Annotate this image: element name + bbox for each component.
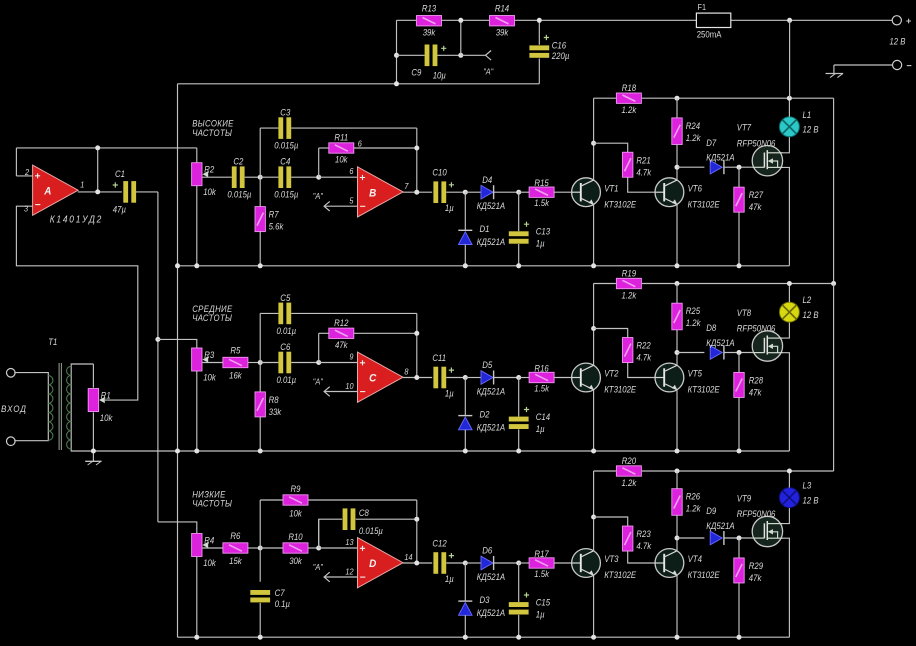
wire [494, 191, 519, 193]
svg-text:8: 8 [404, 367, 409, 377]
capacitor C13 [509, 222, 551, 249]
svg-text:0.1µ: 0.1µ [275, 598, 290, 609]
transformer T1 [14, 337, 93, 451]
node [537, 18, 542, 23]
node [675, 536, 680, 541]
potentiometer R4 [192, 534, 217, 568]
svg-text:47k: 47k [335, 339, 348, 350]
svg-text:VT5: VT5 [688, 368, 703, 379]
svg-text:10k: 10k [203, 557, 216, 568]
wire emitter to rail [593, 390, 595, 451]
svg-text:250mA: 250mA [697, 29, 722, 40]
svg-text:R29: R29 [749, 560, 764, 571]
node [414, 517, 419, 522]
resistor R22 [623, 338, 652, 363]
wire supply rail right [642, 283, 834, 285]
svg-text:R28: R28 [749, 375, 764, 386]
wire R1 bottom [92, 412, 94, 451]
wire R2 top lead [196, 148, 198, 163]
capacitor C8 [343, 508, 356, 530]
wire [259, 313, 261, 362]
wire [724, 166, 752, 168]
svg-text:10k: 10k [335, 154, 348, 165]
svg-text:R26: R26 [686, 491, 701, 502]
wire supply rail [594, 97, 616, 99]
svg-text:D7: D7 [706, 137, 717, 148]
svg-text:F1: F1 [698, 3, 707, 13]
svg-text:C5: C5 [280, 292, 290, 303]
wire [259, 548, 261, 582]
resistor R7 [255, 207, 284, 232]
capacitor C2 [232, 166, 245, 188]
wire [676, 471, 678, 489]
svg-text:14: 14 [404, 552, 413, 562]
capacitor C5 [278, 303, 291, 325]
node detector 2 [516, 190, 521, 195]
svg-text:0.015µ: 0.015µ [274, 189, 298, 200]
wire [833, 65, 835, 74]
diode D3 [458, 594, 505, 618]
terminal input top [7, 369, 16, 378]
svg-text:C: C [369, 373, 377, 385]
wire [464, 378, 466, 416]
wire [738, 353, 740, 373]
wire [676, 98, 678, 118]
node J2 [316, 546, 321, 551]
node [737, 350, 742, 355]
svg-text:КТ3102Е: КТ3102Е [688, 384, 720, 395]
wire drain [783, 322, 790, 338]
svg-text:КТ3102Е: КТ3102Е [604, 199, 636, 210]
svg-text:C13: C13 [536, 226, 551, 237]
svg-text:КД521А: КД521А [706, 152, 735, 163]
svg-text:КД521А: КД521А [477, 422, 506, 433]
wire drain [783, 508, 790, 524]
wire to + input [319, 362, 358, 364]
svg-text:D3: D3 [480, 594, 490, 605]
wire [291, 176, 319, 178]
node [95, 189, 100, 194]
svg-text:C12: C12 [432, 538, 447, 549]
wire 12V down [789, 20, 791, 98]
wire emitter VT6 [676, 205, 678, 266]
lamp L1 [779, 109, 818, 137]
svg-text:B: B [369, 188, 377, 200]
capacitor C1 [113, 181, 136, 203]
wire common bus [177, 84, 179, 637]
diode D6 [477, 545, 506, 582]
wire collector VT6 [676, 353, 678, 366]
wire [260, 362, 278, 364]
svg-text:15k: 15k [229, 556, 242, 567]
wire [464, 615, 466, 637]
wire [724, 537, 752, 539]
svg-text:6: 6 [349, 166, 354, 176]
capacitor C10 [433, 181, 454, 203]
wire [738, 212, 740, 266]
svg-text:R22: R22 [636, 340, 651, 351]
svg-text:220µ: 220µ [551, 50, 569, 61]
wire [446, 191, 465, 193]
capacitor C12 [433, 552, 454, 574]
node [675, 635, 680, 640]
terminal input bottom [7, 437, 16, 446]
wire [259, 500, 261, 548]
svg-text:К1401УД2: К1401УД2 [50, 214, 103, 225]
svg-text:R20: R20 [622, 455, 637, 466]
resistor R16 [529, 363, 554, 394]
wire right bus upper [833, 98, 835, 283]
wire emitter VT6 [676, 575, 678, 637]
node [737, 449, 742, 454]
resistor R11 [329, 132, 354, 165]
capacitor C15 [509, 592, 551, 619]
wire pot bottom [196, 557, 198, 638]
svg-text:RFP50N06: RFP50N06 [737, 323, 776, 334]
wire drain [783, 137, 790, 153]
svg-text:R4: R4 [204, 535, 214, 546]
svg-text:1µ: 1µ [445, 573, 454, 584]
ground [85, 451, 101, 465]
node [258, 635, 263, 640]
wire [97, 148, 99, 192]
capacitor C7 [250, 588, 290, 610]
svg-text:5.6k: 5.6k [269, 221, 284, 232]
node [516, 635, 521, 640]
svg-text:D: D [369, 559, 377, 571]
node J1 [258, 360, 263, 365]
svg-text:10k: 10k [203, 186, 216, 197]
node [394, 53, 399, 58]
node [175, 263, 180, 268]
wire secondary top to R1 [92, 364, 94, 388]
diode D2 [458, 409, 505, 433]
svg-text:D8: D8 [706, 323, 716, 334]
svg-text:D4: D4 [482, 174, 492, 185]
node [675, 469, 680, 474]
node [414, 331, 419, 336]
node [675, 165, 680, 170]
wire emitter to rail [593, 205, 595, 266]
node detector 1 [463, 375, 468, 380]
wire [738, 167, 740, 187]
wire op-amp output [403, 191, 432, 193]
wire [515, 19, 697, 21]
node [831, 281, 836, 286]
resistor R10 [283, 531, 308, 566]
wire [354, 147, 417, 149]
net marker A at inverting input [313, 377, 358, 396]
wire op-amp output [403, 562, 432, 564]
svg-text:C14: C14 [536, 411, 551, 422]
diode D4 [477, 174, 506, 211]
resistor R26 [672, 489, 701, 516]
node detector 1 [463, 190, 468, 195]
svg-text:10k: 10k [289, 508, 302, 519]
svg-text:D2: D2 [480, 409, 490, 420]
wire [291, 127, 417, 129]
node [675, 350, 680, 355]
resistor R12 [329, 317, 354, 350]
svg-text:3: 3 [24, 204, 29, 214]
node [414, 375, 419, 380]
wire [519, 562, 529, 564]
wire [260, 547, 283, 549]
wire [260, 127, 278, 129]
wire channel bottom rail [93, 450, 789, 452]
node J2 [316, 360, 321, 365]
svg-text:4.7k: 4.7k [636, 167, 651, 178]
node detector 1 [463, 561, 468, 566]
wire [518, 615, 520, 637]
wire [446, 377, 465, 379]
svg-text:12 В: 12 В [803, 124, 819, 135]
svg-text:0.01µ: 0.01µ [276, 325, 296, 336]
svg-text:10k: 10k [100, 412, 113, 423]
wire bus to R4 [158, 522, 197, 534]
wire [15, 148, 17, 176]
wire collector to rail [593, 284, 595, 366]
svg-text:13: 13 [345, 537, 354, 547]
wire supply rail [594, 283, 616, 285]
wire [519, 377, 529, 379]
svg-text:1.2k: 1.2k [622, 477, 637, 488]
wire [518, 429, 520, 451]
wire collector tap [594, 517, 628, 526]
svg-text:1µ: 1µ [445, 388, 454, 399]
svg-text:39k: 39k [423, 27, 436, 38]
svg-text:R6: R6 [230, 530, 240, 541]
svg-text:1: 1 [80, 180, 84, 190]
svg-text:КД521А: КД521А [477, 571, 506, 582]
svg-text:D9: D9 [706, 506, 716, 517]
wire [319, 332, 329, 334]
wire [676, 145, 678, 168]
wire [248, 362, 260, 364]
wire [676, 515, 678, 538]
node [463, 263, 468, 268]
node [591, 326, 596, 331]
wire source [783, 538, 790, 637]
wire collector to rail [593, 98, 595, 180]
svg-text:A: A [43, 186, 51, 198]
wire [677, 537, 704, 539]
node [194, 635, 199, 640]
wire [465, 562, 481, 564]
wire [538, 59, 540, 84]
wire [308, 499, 417, 501]
wire [738, 538, 740, 558]
svg-text:C3: C3 [280, 107, 290, 118]
svg-text:L1: L1 [803, 109, 812, 120]
wire [260, 499, 283, 501]
wire [291, 312, 417, 314]
wire [397, 54, 425, 56]
svg-text:"А": "А" [313, 377, 324, 387]
capacitor C3 [278, 117, 291, 139]
potentiometer R3 [192, 348, 217, 382]
node [675, 263, 680, 268]
svg-text:КД521А: КД521А [477, 607, 506, 618]
svg-text:C1: C1 [115, 168, 125, 179]
node [95, 145, 100, 150]
wire [260, 176, 278, 178]
svg-text:C2: C2 [233, 156, 243, 167]
wire [136, 191, 158, 193]
node [516, 449, 521, 454]
wire [834, 64, 893, 66]
svg-text:КД521А: КД521А [706, 337, 735, 348]
svg-text:C10: C10 [432, 167, 447, 178]
wire pin2 [16, 175, 32, 177]
svg-text:1.2k: 1.2k [686, 132, 701, 143]
node [675, 281, 680, 286]
svg-text:КД521А: КД521А [477, 201, 506, 212]
svg-text:30k: 30k [289, 556, 302, 567]
wire [738, 583, 740, 637]
wire [259, 177, 261, 207]
node [414, 190, 419, 195]
svg-text:1.5k: 1.5k [534, 568, 549, 579]
wire [464, 430, 466, 451]
wire [354, 332, 417, 334]
capacitor C14 [509, 407, 551, 434]
wire C1 output bus [157, 192, 159, 522]
wire R21 to base VT6 [628, 551, 655, 563]
svg-text:R23: R23 [636, 528, 651, 539]
diode D8 [706, 323, 735, 360]
resistor R17 [529, 548, 554, 579]
svg-text:RFP50N06: RFP50N06 [737, 508, 776, 519]
svg-text:КТ3102Е: КТ3102Е [688, 570, 720, 581]
svg-text:КД521А: КД521А [477, 236, 506, 247]
MOSFET VT7 [737, 122, 783, 176]
wire supply rail right [642, 470, 834, 472]
wire [465, 377, 481, 379]
capacitor C6 [278, 352, 291, 374]
wire pot bottom [196, 371, 198, 451]
resistor R13 [417, 3, 442, 38]
svg-text:ЧАСТОТЫ: ЧАСТОТЫ [192, 312, 232, 323]
net marker A at inverting input [313, 562, 358, 581]
wire [518, 192, 520, 231]
svg-text:VT7: VT7 [737, 122, 752, 133]
wire to + input [319, 176, 358, 178]
svg-text:16k: 16k [229, 370, 242, 381]
wire [676, 330, 678, 353]
resistor R20 [616, 455, 641, 488]
svg-text:L2: L2 [803, 294, 812, 305]
svg-text:1.5k: 1.5k [534, 383, 549, 394]
svg-text:9: 9 [349, 352, 354, 362]
node [675, 449, 680, 454]
svg-text:ВХОД: ВХОД [1, 403, 27, 414]
wire channel bottom rail [178, 636, 790, 638]
wire [248, 547, 260, 549]
wire output A [78, 191, 122, 193]
node [737, 263, 742, 268]
resistor R29 [734, 558, 764, 583]
node [737, 536, 742, 541]
wire R21 to base VT6 [628, 363, 655, 378]
resistor R6 [223, 530, 248, 566]
wire [260, 312, 278, 314]
node [194, 449, 199, 454]
svg-text:R3: R3 [204, 349, 214, 360]
svg-text:VT8: VT8 [737, 307, 752, 318]
svg-text:VT1: VT1 [604, 183, 619, 194]
wire [494, 562, 519, 564]
svg-text:33k: 33k [269, 406, 282, 417]
wire collector VT6 [676, 538, 678, 551]
svg-text:1.2k: 1.2k [686, 318, 701, 329]
resistor R14 [490, 3, 515, 38]
svg-text:R18: R18 [622, 83, 637, 94]
wire [291, 362, 319, 364]
svg-text:47k: 47k [749, 572, 762, 583]
svg-text:R8: R8 [269, 394, 279, 405]
svg-text:D1: D1 [480, 223, 490, 234]
op-amp C [358, 352, 404, 402]
svg-text:4.7k: 4.7k [636, 540, 651, 551]
wire [677, 166, 704, 168]
wire collector tap [594, 329, 628, 338]
wire [318, 519, 320, 548]
diode D1 [458, 223, 505, 247]
svg-text:R17: R17 [534, 548, 549, 559]
node J1 [258, 546, 263, 551]
svg-text:VT4: VT4 [688, 554, 703, 565]
svg-text:R1: R1 [101, 390, 111, 401]
svg-text:R9: R9 [291, 484, 301, 495]
wire to base VT1 [554, 377, 572, 379]
wire R1 wiper [16, 206, 137, 400]
svg-text:C11: C11 [432, 352, 446, 363]
svg-text:R10: R10 [288, 531, 303, 542]
node [591, 635, 596, 640]
node [787, 96, 792, 101]
MOSFET VT9 [737, 493, 783, 547]
wire [677, 352, 704, 354]
svg-text:1µ: 1µ [536, 423, 545, 434]
capacitor C9 [425, 45, 447, 67]
wire [518, 244, 520, 266]
wire [259, 603, 261, 637]
wire emitter VT6 [676, 390, 678, 451]
svg-text:"А": "А" [483, 67, 494, 77]
wire [259, 128, 261, 177]
wire [731, 19, 892, 21]
transistor VT5 [655, 363, 720, 395]
resistor R19 [616, 268, 641, 301]
wire to base VT1 [554, 562, 572, 564]
wire feedback to R2 [16, 147, 196, 149]
lamp L2 [779, 294, 818, 322]
transistor VT4 [655, 549, 720, 581]
svg-text:R11: R11 [334, 132, 348, 143]
node [91, 449, 96, 454]
wire source [783, 353, 790, 451]
resistor R27 [734, 187, 764, 212]
svg-text:12 В: 12 В [803, 309, 819, 320]
op-amp B [358, 167, 404, 217]
fuse F1 [696, 3, 730, 40]
wire right bus lower [833, 284, 835, 472]
wire source [783, 167, 790, 265]
resistor R28 [734, 372, 764, 397]
wire supply rail right [642, 97, 834, 99]
wire [676, 284, 678, 304]
